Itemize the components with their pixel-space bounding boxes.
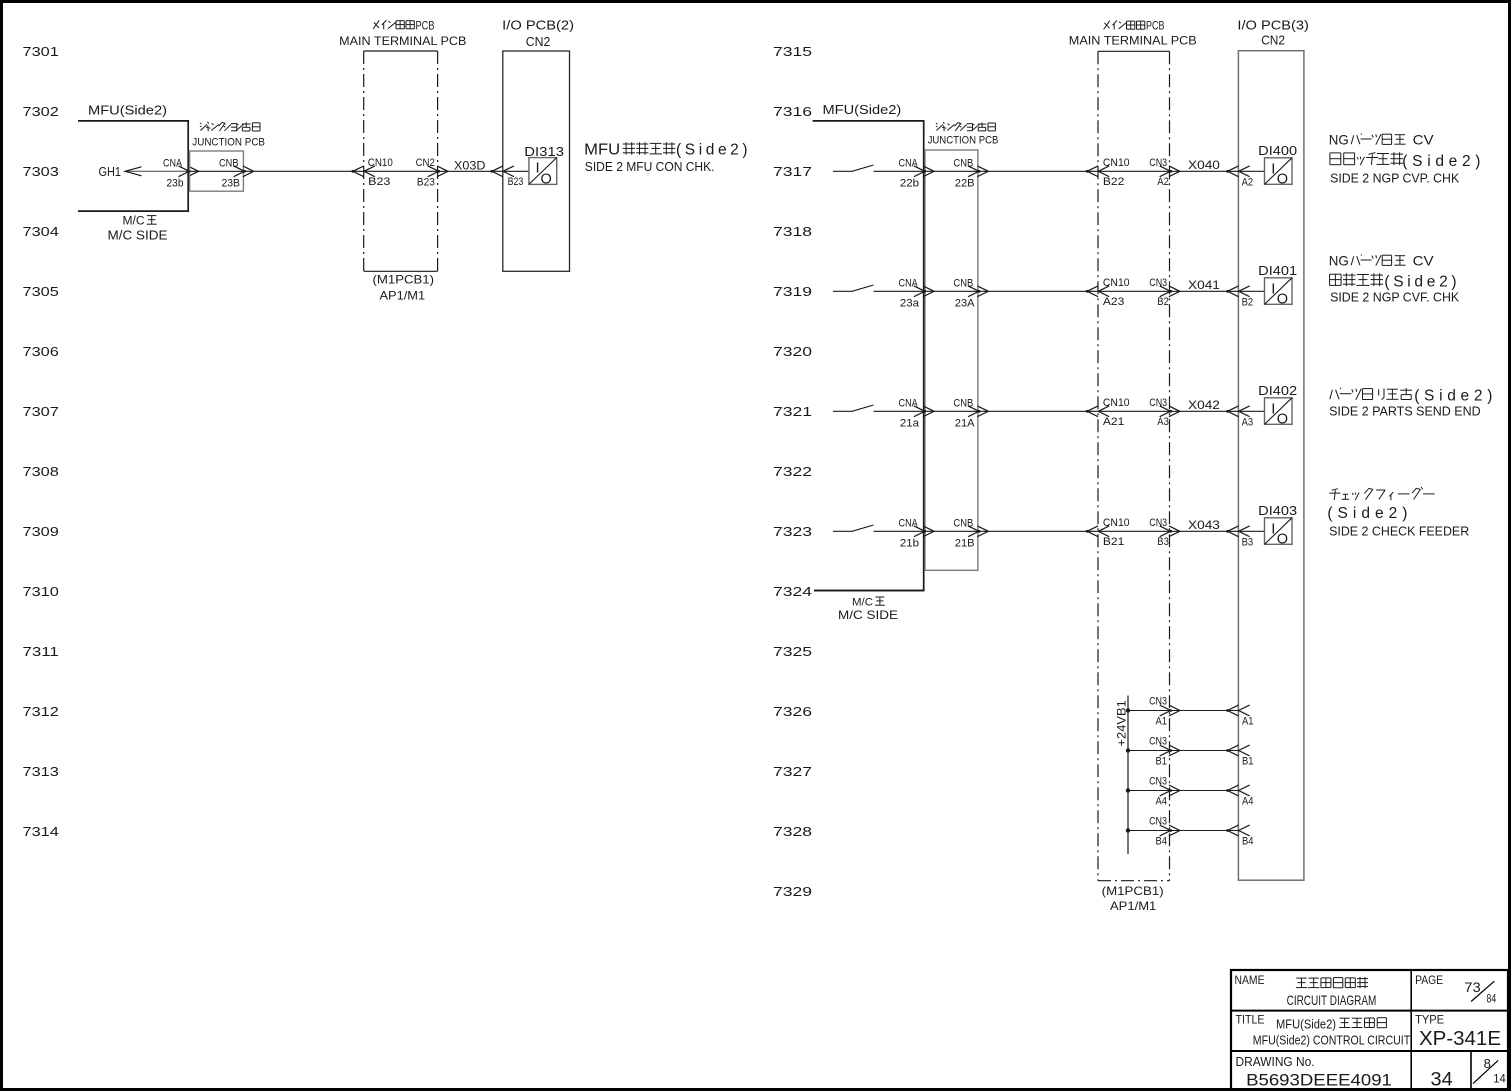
svg-text:7325: 7325 — [773, 644, 812, 659]
connector chevron CN10 at main terminal left edge row DI403 — [1086, 526, 1110, 537]
svg-text:8: 8 — [1484, 1056, 1491, 1071]
svg-text:7304: 7304 — [23, 224, 59, 239]
svg-text:PCB: PCB — [1146, 20, 1165, 32]
wire main terminal to I/O PCB pin B1 — [1170, 750, 1239, 752]
svg-text:B5693DEEE4091: B5693DEEE4091 — [1246, 1072, 1392, 1090]
MFU M/C side block outline (right circuit) — [813, 121, 924, 591]
svg-text:CN2: CN2 — [416, 157, 435, 169]
svg-text:7308: 7308 — [23, 464, 59, 479]
connector chevron at MFU edge row DI402 — [914, 406, 934, 417]
svg-text:21a: 21a — [900, 417, 919, 429]
svg-text:7323: 7323 — [773, 524, 812, 539]
svg-text:O: O — [1277, 291, 1288, 307]
junction PCB box (left) — [190, 151, 244, 191]
connector chevron at junction PCB edge row DI401 — [968, 286, 988, 297]
svg-text:CN3: CN3 — [1149, 277, 1167, 289]
MFU M/C side block outline (left circuit) — [78, 121, 188, 211]
svg-text:O: O — [1277, 531, 1288, 547]
connector chevron at MFU edge row DI401 — [914, 286, 934, 297]
svg-text:A2: A2 — [1242, 177, 1254, 189]
svg-text:CV: CV — [1413, 252, 1435, 268]
svg-text:MFU(Side2): MFU(Side2) — [88, 103, 167, 118]
svg-text:A2: A2 — [1157, 176, 1169, 188]
svg-text:7326: 7326 — [773, 704, 812, 719]
wire main terminal to I/O PCB pin A4 — [1170, 790, 1239, 792]
svg-text:7322: 7322 — [773, 464, 812, 479]
svg-text:73: 73 — [1464, 979, 1481, 995]
svg-text:84: 84 — [1487, 992, 1497, 1006]
svg-text:CNA: CNA — [899, 517, 919, 529]
svg-text:GH1: GH1 — [99, 165, 122, 179]
svg-text:SIDE 2 CHECK FEEDER: SIDE 2 CHECK FEEDER — [1329, 524, 1469, 539]
connector chevron CN3 at main terminal right edge pin A1 — [1160, 705, 1180, 716]
annotation parts send end (Side2) (row 7321) — [1330, 388, 1412, 400]
svg-text:I: I — [1271, 160, 1275, 177]
connector chevron at I/O PCB(3) edge row DI400 — [1226, 166, 1250, 177]
connector chevron at I/O PCB(3) edge pin B1 — [1226, 745, 1250, 756]
svg-text:JUNCTION PCB: JUNCTION PCB — [928, 135, 999, 147]
svg-text:MFU(Side2): MFU(Side2) — [823, 102, 902, 117]
wire main terminal to I/O PCB pin B4 — [1170, 830, 1239, 832]
svg-text:CNB: CNB — [219, 158, 239, 170]
connector chevron at junction PCB edge row DI403 — [968, 526, 988, 537]
svg-text:M/C SIDE: M/C SIDE — [838, 608, 898, 622]
title block bottom row divider — [1470, 1051, 1472, 1090]
wire MFU to main terminal row DI403 — [924, 530, 1098, 532]
svg-text:B1: B1 — [1156, 756, 1168, 768]
svg-text:23A: 23A — [955, 297, 976, 309]
svg-text:DI402: DI402 — [1258, 384, 1297, 398]
svg-text:M/C: M/C — [123, 216, 145, 228]
wire MFU to main terminal row DI402 — [924, 410, 1098, 412]
wire +24VB1 to CN3 pin B4 — [1128, 830, 1170, 832]
svg-text:23B: 23B — [222, 178, 241, 190]
svg-text:A3: A3 — [1242, 417, 1254, 429]
svg-text:O: O — [541, 172, 552, 188]
svg-text:A4: A4 — [1242, 796, 1254, 808]
title block row divider 2 — [1231, 1050, 1508, 1052]
title block circuit diagram name (Japanese) — [1296, 977, 1368, 988]
connector chevron at I/O PCB(3) edge pin B4 — [1226, 825, 1250, 836]
svg-text:I/O PCB(2): I/O PCB(2) — [502, 18, 574, 32]
svg-text:MFU(Side2): MFU(Side2) — [1276, 1016, 1336, 1031]
svg-text:NG: NG — [1329, 131, 1349, 147]
title block outer frame — [1231, 970, 1508, 1090]
junction dot +24VB1 bus pin B1 — [1126, 748, 1130, 752]
svg-text:X03D: X03D — [454, 159, 486, 173]
svg-text:21A: 21A — [955, 417, 976, 429]
svg-text:7324: 7324 — [773, 584, 812, 599]
svg-text:I/O PCB(3): I/O PCB(3) — [1237, 18, 1309, 32]
wire inside main terminal PCB (left) — [364, 170, 438, 172]
svg-text:I: I — [1271, 400, 1275, 417]
svg-text:DI403: DI403 — [1258, 504, 1297, 518]
svg-text:(Side2): (Side2) — [1384, 274, 1460, 291]
svg-text:B4: B4 — [1242, 836, 1254, 848]
svg-text:B23: B23 — [508, 176, 524, 188]
svg-text:A1: A1 — [1156, 716, 1168, 728]
svg-text:DI400: DI400 — [1258, 144, 1297, 158]
connector chevron at MFU edge row DI403 — [914, 526, 934, 537]
wire MFU to main terminal PCB (left) — [188, 170, 364, 172]
svg-text:7309: 7309 — [23, 524, 59, 539]
svg-text:7314: 7314 — [23, 824, 59, 839]
svg-text:B2: B2 — [1242, 297, 1254, 309]
svg-text:14: 14 — [1493, 1072, 1506, 1086]
power bus +24VB1 — [1127, 696, 1129, 855]
connector chevron CN3 at main terminal right edge pin A4 — [1160, 785, 1180, 796]
connector chevron CN10 at main terminal left edge (left) — [351, 166, 375, 177]
svg-text:SIDE 2 PARTS SEND END: SIDE 2 PARTS SEND END — [1329, 403, 1481, 418]
wire MFU to main terminal row DI400 — [924, 170, 1098, 172]
svg-text:34: 34 — [1431, 1069, 1453, 1091]
svg-text:22B: 22B — [955, 177, 975, 189]
svg-text:7329: 7329 — [773, 884, 812, 899]
wire inside main terminal row DI400 — [1098, 170, 1170, 172]
connector chevron at MFU edge row DI400 — [914, 166, 934, 177]
svg-text:TITLE: TITLE — [1236, 1013, 1265, 1027]
svg-text:B3: B3 — [1242, 537, 1254, 549]
input module DI313 I/O symbol — [529, 158, 557, 185]
svg-text:CN3: CN3 — [1149, 397, 1167, 409]
svg-text:7312: 7312 — [23, 704, 59, 719]
connector chevron at junction PCB edge row DI400 — [968, 166, 988, 177]
svg-text:7301: 7301 — [23, 44, 59, 59]
input module DI401 I/O symbol — [1265, 278, 1293, 305]
svg-text:NG: NG — [1329, 252, 1349, 268]
svg-text:7313: 7313 — [23, 764, 59, 779]
svg-text:CN3: CN3 — [1149, 157, 1167, 169]
switch contact feeding DI403 — [833, 530, 852, 532]
svg-text:7321: 7321 — [773, 404, 812, 419]
wire main terminal to I/O PCB row DI400 — [1170, 170, 1239, 172]
wire to input module DI401 — [1238, 290, 1264, 292]
connector chevron CN3 at main terminal right edge pin B1 — [1160, 745, 1180, 756]
wire to DI313 input module — [503, 170, 529, 172]
svg-text:X040: X040 — [1188, 158, 1220, 172]
svg-text:+24VB1: +24VB1 — [1115, 700, 1129, 746]
svg-text:DI401: DI401 — [1258, 264, 1297, 278]
svg-text:(Side2): (Side2) — [676, 142, 751, 159]
svg-text:CN3: CN3 — [1149, 696, 1167, 708]
annotation check feeder (row 7323) — [1329, 487, 1434, 500]
junction dot +24VB1 bus pin A4 — [1126, 788, 1130, 792]
svg-text:PAGE: PAGE — [1415, 973, 1443, 987]
junction dot +24VB1 bus pin A1 — [1126, 708, 1130, 712]
main terminal PCB box (left) — [364, 50, 438, 52]
svg-text:TYPE: TYPE — [1415, 1013, 1444, 1027]
svg-text:O: O — [1277, 411, 1288, 427]
connector chevron CN3 at main terminal right edge row DI403 — [1160, 526, 1180, 537]
svg-text:B1: B1 — [1242, 756, 1254, 768]
title block column divider — [1410, 970, 1412, 1090]
svg-text:M/C: M/C — [852, 597, 873, 609]
switch contact feeding DI401 — [833, 290, 852, 292]
svg-text:(Side2): (Side2) — [1402, 153, 1485, 170]
svg-text:7311: 7311 — [23, 644, 59, 659]
connector chevron CN10 at main terminal left edge row DI401 — [1086, 286, 1110, 297]
wire M/C side row 7324 — [814, 590, 924, 592]
connector chevron CN3 at main terminal right edge row DI400 — [1160, 166, 1180, 177]
svg-text:(Side2): (Side2) — [1414, 388, 1497, 405]
svg-text:7310: 7310 — [23, 584, 59, 599]
svg-text:CNA: CNA — [899, 157, 919, 169]
input module DI400 I/O symbol — [1265, 158, 1293, 185]
svg-text:A23: A23 — [1103, 296, 1124, 308]
svg-text:B21: B21 — [1103, 536, 1124, 548]
svg-text:MAIN TERMINAL PCB: MAIN TERMINAL PCB — [339, 34, 466, 48]
svg-text:DI313: DI313 — [524, 145, 564, 159]
svg-text:CN10: CN10 — [1103, 397, 1130, 409]
svg-text:7302: 7302 — [23, 104, 59, 119]
svg-text:X042: X042 — [1188, 398, 1220, 412]
svg-text:B2: B2 — [1157, 296, 1169, 308]
svg-text:CN10: CN10 — [1103, 277, 1130, 289]
connector chevron at junction PCB edge row DI402 — [968, 406, 988, 417]
connector chevron at I/O PCB(3) edge row DI402 — [1226, 406, 1250, 417]
svg-text:CN3: CN3 — [1149, 816, 1167, 828]
svg-text:CN10: CN10 — [368, 157, 393, 169]
connector chevron CN10 at main terminal left edge row DI402 — [1086, 406, 1110, 417]
svg-text:7303: 7303 — [23, 164, 59, 179]
input module DI403 I/O symbol — [1265, 518, 1293, 545]
svg-text:7317: 7317 — [773, 164, 812, 179]
svg-text:7306: 7306 — [23, 344, 59, 359]
svg-text:MAIN TERMINAL PCB: MAIN TERMINAL PCB — [1069, 34, 1197, 48]
svg-text:(M1PCB1): (M1PCB1) — [1102, 884, 1164, 898]
svg-text:CN2: CN2 — [1261, 34, 1285, 48]
junction dot +24VB1 bus pin B4 — [1126, 828, 1130, 832]
connector chevron at I/O PCB(3) edge pin A1 — [1226, 705, 1250, 716]
svg-text:B4: B4 — [1156, 836, 1168, 848]
svg-text:22b: 22b — [900, 177, 919, 189]
wire main terminal to I/O PCB row DI401 — [1170, 290, 1239, 292]
svg-text:M/C SIDE: M/C SIDE — [108, 229, 168, 243]
switch contact feeding DI402 — [833, 410, 852, 412]
svg-text:CNA: CNA — [899, 397, 919, 409]
connector chevron CN3 at main terminal right edge row DI402 — [1160, 406, 1180, 417]
I/O PCB(2) box — [503, 51, 570, 271]
svg-text:SIDE 2 NGP CVF. CHK: SIDE 2 NGP CVF. CHK — [1330, 289, 1459, 304]
connector chevron at I/O PCB(3) edge row DI403 — [1226, 526, 1250, 537]
svg-text:I: I — [1271, 280, 1275, 297]
svg-text:A1: A1 — [1242, 716, 1254, 728]
connector chevron CN3 at main terminal right edge pin B4 — [1160, 825, 1180, 836]
svg-text:23b: 23b — [167, 178, 184, 190]
svg-text:7318: 7318 — [773, 224, 812, 239]
svg-text:CN2: CN2 — [526, 35, 551, 49]
svg-text:B22: B22 — [1103, 176, 1124, 188]
connector chevron at I/O PCB(2) edge — [491, 166, 515, 177]
svg-text:CN3: CN3 — [1149, 776, 1167, 788]
switch contact feeding DI400 — [833, 170, 852, 172]
wire to input module DI400 — [1238, 170, 1264, 172]
connector chevron CN3 at main terminal right edge row DI401 — [1160, 286, 1180, 297]
svg-text:JUNCTION PCB: JUNCTION PCB — [192, 137, 265, 149]
input module DI402 I/O symbol — [1265, 398, 1293, 425]
connector chevron at MFU edge (left) — [178, 166, 198, 177]
connector chevron CN10 at main terminal left edge row DI400 — [1086, 166, 1110, 177]
wire inside main terminal row DI401 — [1098, 290, 1170, 292]
svg-text:SIDE 2 NGP CVP. CHK: SIDE 2 NGP CVP. CHK — [1330, 170, 1459, 185]
svg-text:CNA: CNA — [899, 277, 919, 289]
wire +24VB1 to CN3 pin A4 — [1128, 790, 1170, 792]
wire main terminal to I/O PCB row DI402 — [1170, 410, 1239, 412]
junction PCB name label (right) — [936, 122, 996, 131]
svg-text:B23: B23 — [417, 176, 435, 188]
svg-text:NAME: NAME — [1235, 973, 1265, 987]
svg-text:MFU: MFU — [584, 142, 620, 159]
svg-text:X041: X041 — [1188, 278, 1220, 292]
wire main terminal to I/O PCB row DI403 — [1170, 530, 1239, 532]
svg-text:B3: B3 — [1157, 536, 1169, 548]
connector chevron at junction PCB edge (left) — [234, 166, 254, 177]
wire MFU to main terminal row DI401 — [924, 290, 1098, 292]
svg-text:SIDE 2 MFU CON CHK.: SIDE 2 MFU CON CHK. — [585, 159, 715, 174]
svg-text:AP1/M1: AP1/M1 — [380, 288, 426, 302]
wire main terminal to I/O PCB pin A1 — [1170, 710, 1239, 712]
svg-text:CN10: CN10 — [1103, 517, 1130, 529]
svg-text:CN3: CN3 — [1149, 736, 1167, 748]
svg-text:CN3: CN3 — [1149, 517, 1167, 529]
wire main terminal to I/O PCB (left) — [438, 170, 503, 172]
svg-text:(M1PCB1): (M1PCB1) — [373, 273, 435, 287]
svg-text:DRAWING No.: DRAWING No. — [1236, 1054, 1315, 1069]
connector chevron at I/O PCB(3) edge pin A4 — [1226, 785, 1250, 796]
wire inside main terminal row DI403 — [1098, 530, 1170, 532]
wire +24VB1 to CN3 pin A1 — [1128, 710, 1170, 712]
main terminal PCB name label (right) — [1104, 21, 1145, 30]
svg-text:21B: 21B — [955, 537, 975, 549]
annotation full check (Side2) (row 7319) — [1330, 273, 1383, 286]
svg-text:I: I — [1271, 520, 1275, 537]
svg-text:7327: 7327 — [773, 764, 812, 779]
svg-text:MFU(Side2) CONTROL CIRCUIT: MFU(Side2) CONTROL CIRCUIT — [1253, 1034, 1411, 1048]
svg-text:CNA: CNA — [163, 158, 183, 170]
main terminal PCB box (right) — [1098, 50, 1170, 52]
svg-text:7315: 7315 — [773, 44, 812, 59]
svg-text:CV: CV — [1413, 131, 1435, 147]
svg-text:PCB: PCB — [416, 20, 435, 32]
connector chevron at I/O PCB(3) edge row DI401 — [1226, 286, 1250, 297]
svg-text:XP-341E: XP-341E — [1419, 1027, 1501, 1050]
title block row divider 1 — [1231, 1010, 1508, 1012]
svg-text:(Side2): (Side2) — [1327, 505, 1412, 522]
svg-text:A21: A21 — [1103, 416, 1124, 428]
wire +24VB1 to CN3 pin B1 — [1128, 750, 1170, 752]
svg-text:7320: 7320 — [773, 344, 812, 359]
svg-text:21b: 21b — [900, 537, 919, 549]
svg-text:23a: 23a — [900, 297, 919, 309]
svg-text:CN10: CN10 — [1103, 157, 1130, 169]
svg-text:A4: A4 — [1156, 796, 1168, 808]
svg-text:O: O — [1277, 171, 1288, 187]
svg-text:7328: 7328 — [773, 824, 812, 839]
connector chevron CN2 at main terminal right edge (left) — [428, 166, 448, 177]
svg-text:AP1/M1: AP1/M1 — [1110, 899, 1157, 913]
svg-text:I: I — [536, 160, 540, 177]
svg-text:CIRCUIT DIAGRAM: CIRCUIT DIAGRAM — [1287, 993, 1377, 1008]
svg-text:X043: X043 — [1188, 518, 1220, 532]
junction PCB name label (left) — [200, 122, 260, 131]
I/O PCB(3) box — [1238, 51, 1304, 881]
main terminal PCB name label (left) — [373, 20, 414, 29]
svg-text:7305: 7305 — [23, 284, 59, 299]
wire to input module DI402 — [1238, 410, 1264, 412]
svg-text:7319: 7319 — [773, 284, 812, 299]
annotation fixed pitch check (Side2) (row 7317) — [1330, 152, 1403, 165]
junction PCB box (right) — [925, 150, 978, 570]
wire to input module DI403 — [1238, 530, 1264, 532]
svg-text:A3: A3 — [1157, 416, 1169, 428]
wire inside main terminal row DI402 — [1098, 410, 1170, 412]
svg-text:7307: 7307 — [23, 404, 59, 419]
svg-text:7316: 7316 — [773, 104, 812, 119]
svg-text:B23: B23 — [368, 176, 390, 188]
wire GH1 output arrow — [125, 170, 188, 172]
